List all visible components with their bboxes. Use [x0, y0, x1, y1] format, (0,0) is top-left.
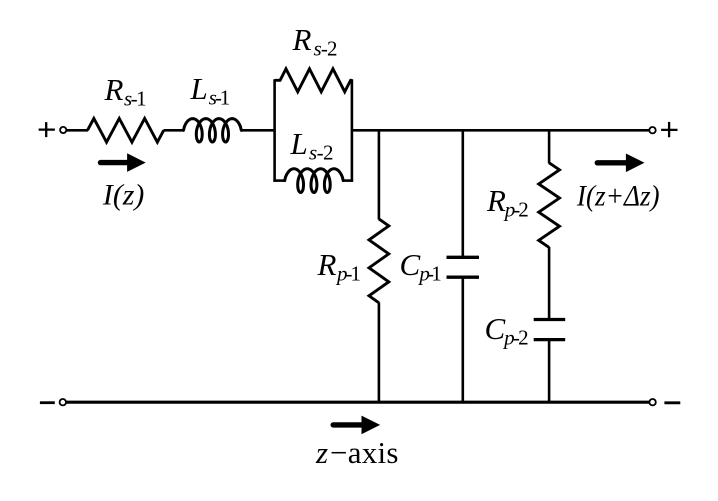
parallel box left vertical wire [273, 79, 276, 182]
plus sign top-right [661, 122, 677, 137]
resistor R_p-2 [539, 163, 560, 248]
svg-text:s-1: s-1 [124, 87, 147, 111]
top rail left wire [67, 129, 88, 132]
current arrow I(z) [101, 160, 129, 165]
terminal circle top-left [60, 127, 66, 133]
minus sign bottom-right [664, 401, 680, 404]
bottom rail wire [66, 401, 649, 404]
z-axis arrow [333, 422, 363, 427]
svg-text:s-2: s-2 [314, 37, 338, 61]
wire between R_p-2 and C_p-2 [548, 247, 551, 320]
current arrow I(z+dz) [597, 160, 627, 165]
wire [241, 129, 276, 132]
svg-text:R: R [486, 183, 506, 218]
svg-text:L: L [290, 126, 308, 161]
svg-text:L: L [190, 71, 208, 106]
terminal circle bottom-left [60, 399, 66, 405]
resistor R_s-2 [275, 69, 352, 92]
resistor R_s-1 [88, 118, 164, 142]
wire C_p-1 branch upper [461, 130, 464, 257]
plus sign top-left [39, 122, 55, 137]
svg-text:C: C [400, 247, 421, 282]
svg-text:p-1: p-1 [335, 262, 361, 286]
svg-text:R: R [104, 72, 124, 107]
inductor L_s-1 [184, 119, 242, 142]
svg-text:I(z+Δz): I(z+Δz) [576, 179, 660, 212]
wire bottom edge left stub [273, 179, 285, 182]
capacitor C_p-1 [447, 256, 480, 259]
svg-text:R: R [292, 22, 312, 57]
svg-text:−axis: −axis [330, 435, 399, 470]
wire R_p-1 branch lower [378, 302, 381, 402]
node wire R_p-1 branch upper [378, 130, 381, 219]
svg-text:R: R [317, 247, 337, 282]
svg-text:s-1: s-1 [209, 86, 231, 110]
parallel box right vertical wire [351, 79, 354, 182]
minus sign bottom-left [40, 401, 55, 404]
inductor L_s-2 [285, 169, 344, 193]
wire C_p-2 branch lower [548, 340, 551, 403]
wire [164, 129, 184, 132]
terminal circle bottom-right [649, 399, 655, 405]
svg-text:p-2: p-2 [502, 326, 528, 350]
resistor R_p-1 [369, 219, 389, 303]
svg-text:s-2: s-2 [309, 141, 334, 165]
wire C_p-1 branch lower [461, 277, 464, 402]
capacitor C_p-2 [534, 318, 566, 321]
svg-text:z: z [315, 435, 328, 470]
svg-text:C: C [485, 311, 506, 346]
terminal circle top-right [649, 127, 655, 133]
top rail right wire [352, 129, 649, 132]
svg-text:p-2: p-2 [503, 198, 529, 222]
wire bottom edge right stub [343, 179, 353, 182]
wire R_p-2 branch upper [548, 130, 551, 163]
svg-text:I(z): I(z) [102, 179, 144, 212]
svg-text:p-1: p-1 [417, 262, 441, 286]
